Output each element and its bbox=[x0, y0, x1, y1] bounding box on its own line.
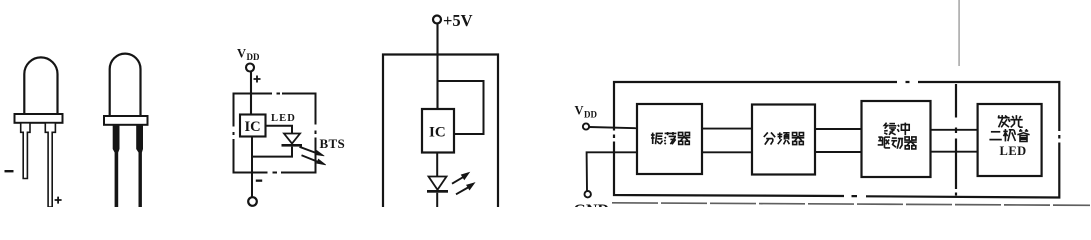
light emission arrow 1 bbox=[452, 172, 470, 183]
LED lamp 2 body (epoxy dome) bbox=[110, 54, 141, 116]
svg-text:V: V bbox=[237, 47, 246, 61]
wire GND rail (bottom rail riser) bbox=[587, 152, 637, 191]
label buffer 缓冲 bbox=[884, 123, 896, 135]
svg-text:DD: DD bbox=[247, 52, 260, 62]
svg-text:DD: DD bbox=[584, 110, 597, 120]
terminal +5V bbox=[433, 16, 441, 24]
wire bottom rail divider to buffer bbox=[815, 151, 862, 153]
svg-text:LED: LED bbox=[1000, 144, 1027, 158]
plus sign node bbox=[254, 76, 261, 83]
LED lamp 1 minus polarity mark bbox=[5, 170, 14, 172]
wire rail divider to buffer bbox=[815, 128, 862, 130]
faint page artifact line (bottom) bbox=[612, 203, 1090, 206]
label divider 分频器 bbox=[764, 132, 775, 144]
LED lamp 1 anode lead (long, right) bbox=[45, 123, 55, 207]
block: LED indicator bbox=[978, 104, 1042, 176]
chip outline (dash-dot enclosure of block diagram) bbox=[614, 82, 1059, 198]
LED lamp 1 cathode lead (short, left) bbox=[21, 123, 30, 179]
label 二极管 bbox=[989, 132, 1001, 140]
wire LED cathode down bbox=[436, 193, 438, 207]
wire bottom rail buffer to LED block bbox=[931, 151, 978, 153]
chip U2 (IC box) bbox=[422, 109, 454, 153]
light emission arrow 1 bbox=[300, 147, 325, 156]
svg-text:GND: GND bbox=[574, 202, 610, 207]
wire VDD to IC bbox=[250, 72, 252, 115]
svg-text:IC: IC bbox=[245, 119, 261, 135]
label 发光 bbox=[998, 115, 1010, 127]
light emission arrow 2 bbox=[302, 155, 326, 165]
block: buffer driver bbox=[862, 101, 931, 177]
LED D1 (internal die) triangle bbox=[284, 134, 300, 144]
LED lamp 1 flange bbox=[15, 114, 63, 123]
wire VDD rail (top supply rail) bbox=[589, 127, 637, 128]
svg-text:V: V bbox=[575, 104, 584, 118]
svg-text:IC: IC bbox=[429, 125, 446, 141]
LED lamp 2 cathode lead (black, left) bbox=[113, 125, 120, 207]
LED lamp 1 plus polarity mark bbox=[55, 197, 62, 204]
terminal GND bbox=[585, 191, 591, 197]
wire LED cathode return bbox=[252, 137, 292, 198]
svg-text:BTS: BTS bbox=[320, 136, 345, 151]
label oscillator 振荡器 bbox=[651, 133, 663, 145]
LED lamp 2 anode lead (black, right) bbox=[136, 125, 143, 207]
LED D2 triangle bbox=[429, 177, 447, 190]
minus sign node bbox=[256, 180, 262, 182]
wire rail oscillator to divider bbox=[702, 128, 752, 130]
svg-text:+5V: +5V bbox=[443, 11, 473, 30]
LED D1 cathode bar bbox=[282, 144, 303, 147]
block: frequency divider bbox=[752, 105, 815, 175]
wire IC to LED anode bbox=[436, 153, 438, 177]
chip U1 (IC box) bbox=[240, 115, 266, 137]
terminal VDD (positive supply) bbox=[246, 64, 254, 72]
stray scan line (light gray, top right) bbox=[958, 0, 960, 66]
terminal VDD bbox=[583, 123, 589, 129]
LED D2 cathode bar bbox=[427, 190, 448, 193]
terminal negative (bottom) bbox=[248, 197, 257, 206]
block: oscillator bbox=[637, 104, 702, 174]
wire IC output to LED anode bbox=[266, 126, 293, 134]
LED lamp 2 flange bbox=[104, 116, 148, 125]
package outline (dash-dot box, flashing LED) bbox=[234, 94, 316, 173]
wire bottom rail oscillator to divider bbox=[702, 151, 752, 153]
label driver 驱动器 bbox=[878, 137, 890, 148]
wire rail buffer to LED block bbox=[931, 129, 978, 131]
LED lamp 1 body (epoxy dome) bbox=[24, 57, 57, 114]
light emission arrow 2 bbox=[456, 183, 475, 195]
wire feedback loop bbox=[438, 81, 484, 134]
svg-text:LED: LED bbox=[271, 113, 296, 124]
dash-dot separator line bbox=[955, 84, 957, 196]
wire +5V down to IC bbox=[436, 24, 438, 110]
enclosure box (5V flasher circuit) bbox=[383, 55, 498, 208]
